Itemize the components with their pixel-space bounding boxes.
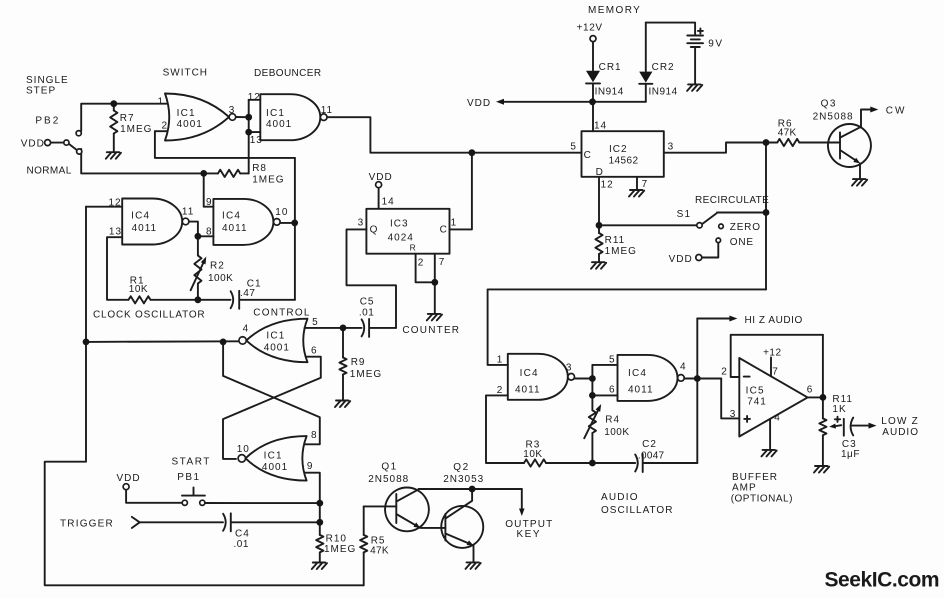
svg-text:.01: .01 [359, 308, 374, 319]
svg-text:KEY: KEY [517, 529, 542, 540]
svg-text:741: 741 [747, 397, 767, 408]
svg-text:1MEG: 1MEG [252, 174, 284, 185]
svg-text:5: 5 [609, 354, 616, 365]
svg-text:SWITCH: SWITCH [163, 68, 208, 79]
svg-text:1μF: 1μF [841, 449, 860, 460]
svg-text:Q2: Q2 [453, 462, 469, 473]
svg-text:VDD: VDD [117, 473, 141, 484]
svg-text:.47: .47 [240, 288, 255, 299]
svg-text:4001: 4001 [264, 342, 290, 353]
svg-text:1: 1 [158, 97, 165, 108]
svg-text:2: 2 [721, 367, 728, 378]
svg-text:9: 9 [206, 197, 213, 208]
svg-text:Q: Q [370, 225, 379, 236]
svg-text:4011: 4011 [515, 384, 541, 395]
svg-text:10K: 10K [129, 284, 148, 295]
svg-text:7: 7 [642, 179, 649, 190]
svg-text:START: START [172, 456, 211, 467]
svg-text:R4: R4 [605, 415, 620, 426]
svg-text:Q3: Q3 [821, 98, 837, 109]
svg-text:4001: 4001 [266, 119, 292, 130]
svg-text:TRIGGER: TRIGGER [60, 519, 114, 530]
svg-text:R: R [410, 242, 417, 252]
svg-text:VDD: VDD [369, 172, 393, 183]
svg-text:LOW Z: LOW Z [881, 416, 919, 427]
svg-text:IC1: IC1 [266, 108, 285, 119]
svg-text:10: 10 [275, 207, 288, 218]
svg-text:14: 14 [594, 121, 607, 132]
svg-text:IC4: IC4 [628, 368, 647, 379]
svg-text:3: 3 [668, 141, 675, 152]
svg-text:C5: C5 [360, 296, 375, 307]
svg-text:PB2: PB2 [35, 115, 60, 126]
svg-text:4001: 4001 [262, 462, 288, 473]
svg-text:13: 13 [109, 226, 122, 237]
svg-text:1: 1 [451, 218, 458, 229]
svg-text:+12V: +12V [577, 22, 603, 33]
svg-text:.0047: .0047 [638, 451, 665, 462]
svg-text:MEMORY: MEMORY [588, 5, 641, 16]
svg-text:D: D [596, 167, 604, 178]
svg-text:C2: C2 [642, 439, 657, 450]
svg-text:100K: 100K [208, 273, 233, 284]
svg-text:2: 2 [162, 120, 169, 131]
svg-text:AMP: AMP [732, 482, 757, 493]
svg-text:CR2: CR2 [652, 62, 675, 73]
svg-text:R9: R9 [351, 357, 366, 368]
svg-text:4011: 4011 [628, 384, 654, 395]
svg-text:C: C [584, 150, 592, 161]
svg-text:9V: 9V [708, 38, 723, 49]
svg-text:CLOCK OSCILLATOR: CLOCK OSCILLATOR [93, 310, 205, 321]
svg-text:11: 11 [321, 105, 333, 116]
svg-text:CONTROL: CONTROL [253, 307, 310, 318]
svg-text:2N5088: 2N5088 [368, 474, 409, 485]
svg-text:VDD: VDD [467, 98, 491, 109]
svg-text:4011: 4011 [222, 223, 248, 234]
svg-text:3: 3 [566, 362, 573, 373]
svg-text:1MEG: 1MEG [605, 246, 637, 257]
svg-text:R8: R8 [252, 163, 267, 174]
svg-text:RECIRCULATE: RECIRCULATE [695, 195, 769, 206]
svg-text:10K: 10K [523, 449, 542, 460]
svg-text:HI Z AUDIO: HI Z AUDIO [745, 315, 803, 326]
svg-text:R10: R10 [326, 533, 347, 544]
svg-text:13: 13 [250, 135, 263, 146]
svg-text:5: 5 [312, 317, 319, 328]
svg-text:8: 8 [206, 226, 213, 237]
svg-text:1MEG: 1MEG [324, 544, 356, 555]
svg-text:4: 4 [243, 324, 250, 335]
svg-text:1: 1 [497, 354, 504, 365]
svg-text:Q1: Q1 [381, 461, 397, 472]
svg-text:CW: CW [886, 105, 907, 116]
svg-text:SeekIC.com: SeekIC.com [825, 568, 940, 591]
svg-text:12: 12 [248, 92, 261, 103]
svg-text:R11: R11 [605, 235, 626, 246]
svg-text:1MEG: 1MEG [350, 369, 382, 380]
svg-text:9: 9 [307, 461, 314, 472]
svg-text:IC4: IC4 [520, 368, 539, 379]
svg-text:IC1: IC1 [266, 330, 285, 341]
svg-text:4: 4 [774, 413, 781, 424]
svg-text:4001: 4001 [177, 119, 203, 130]
svg-text:2: 2 [418, 258, 425, 269]
svg-text:3: 3 [358, 218, 365, 229]
svg-text:ZERO: ZERO [730, 222, 761, 233]
svg-text:100K: 100K [604, 427, 629, 438]
svg-text:2N3053: 2N3053 [443, 474, 484, 485]
svg-text:IC1: IC1 [177, 108, 196, 119]
svg-text:4: 4 [680, 362, 687, 373]
svg-text:(OPTIONAL): (OPTIONAL) [731, 494, 793, 505]
svg-text:AUDIO: AUDIO [882, 427, 919, 438]
svg-text:IC3: IC3 [390, 219, 409, 230]
svg-text:R7: R7 [120, 113, 135, 124]
svg-text:S1: S1 [677, 209, 692, 220]
svg-text:+12: +12 [763, 347, 781, 358]
svg-text:IN914: IN914 [595, 86, 624, 97]
svg-text:COUNTER: COUNTER [402, 325, 460, 336]
svg-text:C: C [440, 225, 448, 236]
svg-text:6: 6 [609, 384, 616, 395]
svg-text:IC4: IC4 [222, 210, 241, 221]
svg-text:STEP: STEP [26, 85, 56, 96]
svg-text:47K: 47K [778, 128, 797, 139]
svg-text:1MEG: 1MEG [120, 124, 152, 135]
svg-text:IC5: IC5 [746, 386, 765, 397]
svg-text:4011: 4011 [132, 223, 158, 234]
svg-text:2N5088: 2N5088 [813, 112, 854, 123]
svg-text:IN914: IN914 [649, 87, 678, 98]
svg-text:6: 6 [807, 385, 814, 396]
svg-text:VDD: VDD [669, 254, 693, 265]
svg-text:10: 10 [237, 444, 250, 455]
svg-text:3: 3 [229, 105, 236, 116]
svg-text:IC4: IC4 [131, 210, 150, 221]
svg-text:NORMAL: NORMAL [27, 166, 72, 177]
svg-text:DEBOUNCER: DEBOUNCER [254, 68, 322, 79]
svg-text:OSCILLATOR: OSCILLATOR [601, 505, 673, 516]
svg-text:ONE: ONE [730, 237, 754, 248]
svg-text:11: 11 [182, 206, 194, 217]
svg-text:PB1: PB1 [177, 472, 200, 483]
svg-text:C4: C4 [235, 528, 250, 539]
svg-text:AUDIO: AUDIO [601, 492, 639, 503]
svg-text:2: 2 [497, 385, 504, 396]
svg-text:.01: .01 [234, 539, 249, 550]
svg-text:3: 3 [730, 409, 737, 420]
svg-text:IC2: IC2 [609, 144, 628, 155]
svg-text:12: 12 [109, 198, 122, 209]
svg-text:CR1: CR1 [599, 62, 622, 73]
svg-text:14562: 14562 [609, 155, 639, 166]
svg-text:12: 12 [601, 180, 614, 191]
svg-text:7: 7 [439, 257, 446, 268]
svg-text:47K: 47K [370, 545, 389, 556]
svg-text:14: 14 [382, 197, 395, 208]
svg-text:VDD: VDD [21, 139, 45, 150]
svg-text:BUFFER: BUFFER [732, 472, 778, 483]
svg-text:IC1: IC1 [264, 450, 283, 461]
svg-text:1K: 1K [832, 404, 846, 415]
svg-text:R2: R2 [210, 260, 225, 271]
svg-text:6: 6 [311, 346, 318, 357]
svg-text:7: 7 [772, 367, 779, 378]
svg-text:8: 8 [311, 430, 318, 441]
svg-text:5: 5 [570, 141, 577, 152]
